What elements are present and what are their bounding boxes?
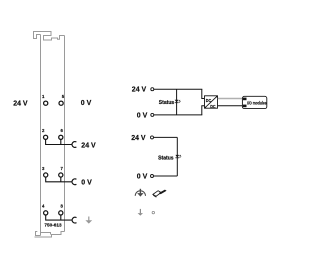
socket arc row4 — [72, 217, 76, 223]
block2 terminal circle top — [151, 136, 154, 139]
terminal 5 — [59, 101, 63, 105]
terminal 6 — [59, 135, 63, 139]
terminal 1 — [44, 101, 48, 105]
module right edge — [64, 36, 66, 232]
wire to DC/DC top — [202, 89, 205, 98]
symbol small circle — [152, 211, 154, 213]
svg-text:I/O modules: I/O modules — [247, 100, 267, 105]
svg-text:24 V: 24 V — [13, 101, 28, 108]
functional earth arrow row4 — [85, 217, 92, 224]
block1 LED branch wire — [176, 89, 178, 115]
terminal 4 — [44, 211, 48, 215]
svg-text:0 V: 0 V — [81, 100, 92, 107]
wire row2 stems and bus — [45, 140, 72, 145]
svg-text:DC: DC — [206, 98, 212, 103]
svg-text:0 V: 0 V — [137, 173, 148, 180]
socket arc row2 — [72, 142, 76, 148]
gray system bus wire — [218, 98, 243, 100]
wire row4 stems and bus — [45, 215, 72, 220]
terminal 2 — [44, 135, 48, 139]
block2 LED branch wire — [176, 137, 178, 176]
svg-text:0 V: 0 V — [137, 112, 148, 119]
I/O modules box — [242, 96, 267, 108]
module bottom profile — [35, 232, 65, 238]
block1 bottom wire — [154, 114, 202, 116]
wire row3 stems and bus — [45, 177, 72, 182]
module left edge — [40, 35, 42, 236]
block2 top wire — [154, 136, 178, 138]
terminal 7 — [59, 173, 63, 177]
block2 bottom wire — [154, 175, 178, 177]
terminal 3 — [44, 173, 48, 177]
svg-text:Status: Status — [159, 100, 175, 106]
svg-text:24 V: 24 V — [132, 87, 147, 94]
svg-text:0 V: 0 V — [81, 180, 92, 187]
block1 top wire — [154, 88, 202, 90]
block1 terminal circle bottom — [151, 113, 154, 116]
symbol power jumper contact — [153, 190, 167, 197]
svg-text:24 V: 24 V — [81, 142, 96, 149]
block2 status LED — [175, 155, 181, 158]
symbol small gray arrow — [138, 209, 143, 216]
symbol supply arrow with arc — [135, 189, 145, 197]
block2 terminal circle bottom — [151, 175, 154, 178]
svg-text:DC: DC — [210, 104, 216, 109]
DC/DC converter box — [205, 96, 218, 109]
black system wire — [218, 105, 243, 107]
svg-text:750-613: 750-613 — [44, 223, 62, 228]
socket arc row3 — [72, 179, 76, 185]
module top profile — [34, 32, 65, 41]
svg-text:Status: Status — [158, 155, 174, 161]
block1 terminal circle top — [151, 88, 154, 91]
wire to DC/DC bottom — [202, 106, 205, 115]
svg-text:24 V: 24 V — [131, 135, 146, 142]
terminal 8 — [59, 211, 63, 215]
block1 status LED — [175, 100, 181, 103]
